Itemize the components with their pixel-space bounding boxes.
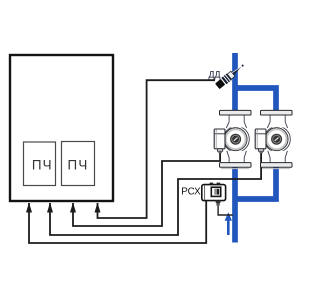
svg-text:РСХ: РСХ xyxy=(181,187,201,198)
svg-text:ДД: ДД xyxy=(209,69,221,79)
svg-text:ПЧ: ПЧ xyxy=(68,157,89,172)
svg-text:ПЧ: ПЧ xyxy=(32,157,53,172)
